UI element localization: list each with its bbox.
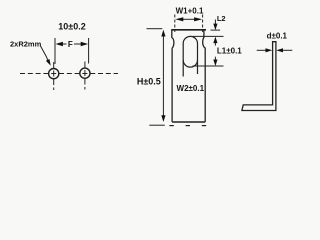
svg-text:L1±0.1: L1±0.1 [217,46,242,55]
svg-text:H±0.5: H±0.5 [137,76,161,86]
svg-text:2xR2mm: 2xR2mm [10,40,42,49]
svg-text:W2±0.1: W2±0.1 [177,84,205,93]
svg-text:F: F [68,40,73,49]
svg-text:10±0.2: 10±0.2 [58,21,85,31]
svg-text:W1+0.1: W1+0.1 [176,7,204,16]
svg-text:L2: L2 [217,14,226,23]
svg-text:d±0.1: d±0.1 [267,31,288,40]
